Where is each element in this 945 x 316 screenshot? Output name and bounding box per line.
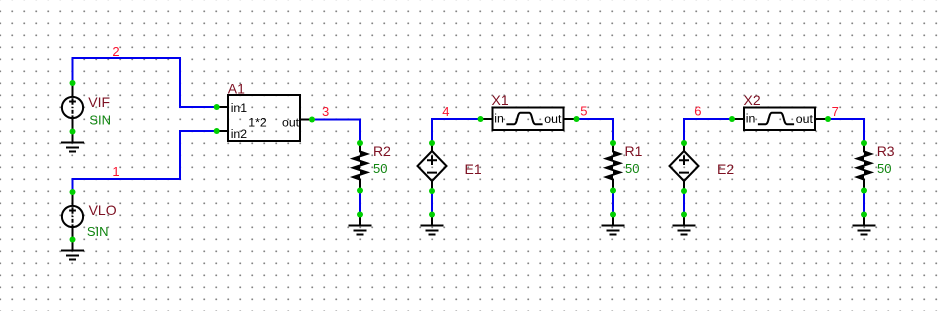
svg-text:in: in	[494, 111, 504, 125]
svg-text:7: 7	[832, 104, 839, 119]
svg-text:6: 6	[694, 104, 701, 119]
svg-text:R3: R3	[877, 143, 895, 159]
svg-text:1*2: 1*2	[248, 115, 267, 129]
svg-text:50: 50	[877, 161, 891, 176]
svg-text:out: out	[282, 116, 300, 130]
svg-text:2: 2	[112, 44, 119, 59]
svg-text:SIN: SIN	[89, 113, 111, 128]
svg-text:VIF: VIF	[88, 94, 110, 110]
svg-text:R1: R1	[625, 143, 643, 159]
svg-text:5: 5	[580, 104, 587, 119]
svg-text:out: out	[544, 112, 562, 126]
svg-text:A1: A1	[228, 80, 245, 96]
svg-text:1: 1	[112, 164, 119, 179]
svg-text:3: 3	[322, 104, 329, 119]
svg-text:E1: E1	[465, 161, 482, 177]
svg-text:50: 50	[373, 161, 387, 176]
svg-text:out: out	[796, 112, 814, 126]
svg-text:X2: X2	[744, 92, 761, 108]
svg-text:50: 50	[625, 161, 639, 176]
svg-text:SIN: SIN	[87, 224, 109, 239]
svg-text:in2: in2	[231, 127, 248, 141]
svg-text:VLO: VLO	[89, 202, 117, 218]
svg-text:4: 4	[442, 104, 449, 119]
svg-text:E2: E2	[717, 161, 734, 177]
svg-text:X1: X1	[492, 92, 509, 108]
svg-text:in: in	[746, 111, 756, 125]
svg-text:in1: in1	[231, 101, 248, 115]
svg-text:R2: R2	[373, 143, 391, 159]
